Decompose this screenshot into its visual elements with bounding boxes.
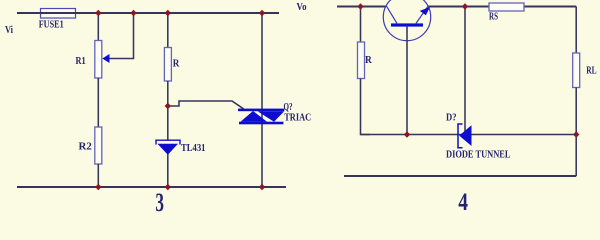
svg-text:RL: RL (586, 65, 596, 76)
fuse FUSE1 body (41, 9, 76, 19)
wire: rail to R top (360, 7, 362, 43)
junction at TRIAC top node (259, 10, 265, 16)
svg-text:DIODE TUNNEL: DIODE TUNNEL (446, 150, 511, 161)
wire: bottom rail (17, 186, 286, 188)
wire: R2 bottom to rail (97, 164, 99, 187)
shunt regulator TL431 symbol (156, 140, 180, 155)
wiper arrow of R1 (102, 54, 109, 63)
wire: base down to diode row (406, 27, 408, 135)
svg-text:RS: RS (489, 12, 498, 23)
tunnel diode D? cathode bracket (458, 124, 463, 148)
svg-text:FUSE1: FUSE1 (39, 20, 64, 31)
junction at wiper node (130, 10, 136, 16)
wire: rail to R top (167, 13, 169, 48)
resistor R body (fig4) (358, 42, 365, 79)
wire: rail right corner down to RL top (575, 7, 577, 54)
wire: RL bottom to diode row (575, 88, 577, 135)
junction at TL431 bottom node (165, 184, 171, 190)
wire: top rail (337, 6, 576, 8)
wire: rail down to tunnel diode (464, 7, 466, 135)
svg-text:4: 4 (458, 189, 468, 216)
wire: gate wire to TRIAC (168, 101, 244, 109)
wire: TL431 cathode to bottom rail (167, 154, 169, 187)
transistor emitter arrow (420, 7, 430, 15)
junction at R top (fig4) (357, 3, 363, 9)
transistor collector lead (387, 6, 398, 23)
transistor emitter lead (416, 6, 428, 23)
wire: diode row horizontal (361, 134, 577, 136)
svg-text:R1: R1 (76, 56, 86, 67)
wire: right vertical to bottom rail (575, 135, 577, 177)
svg-text:Vo: Vo (297, 2, 307, 13)
wire: wiper to top rail (110, 13, 134, 59)
svg-text:3: 3 (155, 188, 164, 217)
wire: rail to R1 top (97, 13, 99, 41)
svg-text:R: R (173, 59, 180, 70)
wire: R bottom through gate node to TL431 (167, 81, 169, 140)
wire: bottom rail (344, 175, 576, 177)
resistor R2 body (95, 127, 102, 164)
transistor Q circle (383, 0, 430, 41)
tunnel diode D? anode triangle (459, 125, 471, 146)
svg-text:TL431: TL431 (181, 143, 206, 154)
junction at R2 bottom node (95, 184, 101, 190)
junction at diode top node (462, 3, 468, 9)
svg-text:R2: R2 (79, 141, 92, 152)
junction at TRIAC bottom node (259, 184, 265, 190)
wire: top rail Vi to Vo (17, 12, 279, 14)
junction at gate node (165, 103, 171, 109)
svg-text:Vi: Vi (5, 25, 13, 36)
junction at FUSE-R1 node (95, 10, 101, 16)
resistor RS body (489, 3, 524, 11)
wire: R1 bottom to R2 top (97, 78, 99, 127)
svg-text:R: R (365, 55, 372, 66)
svg-text:TRIAC: TRIAC (284, 112, 311, 123)
svg-text:D?: D? (446, 112, 457, 123)
triac Q? symbol (238, 109, 284, 125)
junction at base-row node (404, 131, 410, 137)
resistor R body (164, 48, 171, 82)
junction at RL-row node (573, 131, 579, 137)
wire: TRIAC vertical rail to rail (261, 13, 263, 187)
wire: R bottom to diode row (361, 79, 371, 135)
resistor RL body (573, 53, 580, 88)
potentiometer R1 body (95, 41, 102, 79)
transistor base bar (391, 23, 423, 26)
junction at R top node (165, 10, 171, 16)
